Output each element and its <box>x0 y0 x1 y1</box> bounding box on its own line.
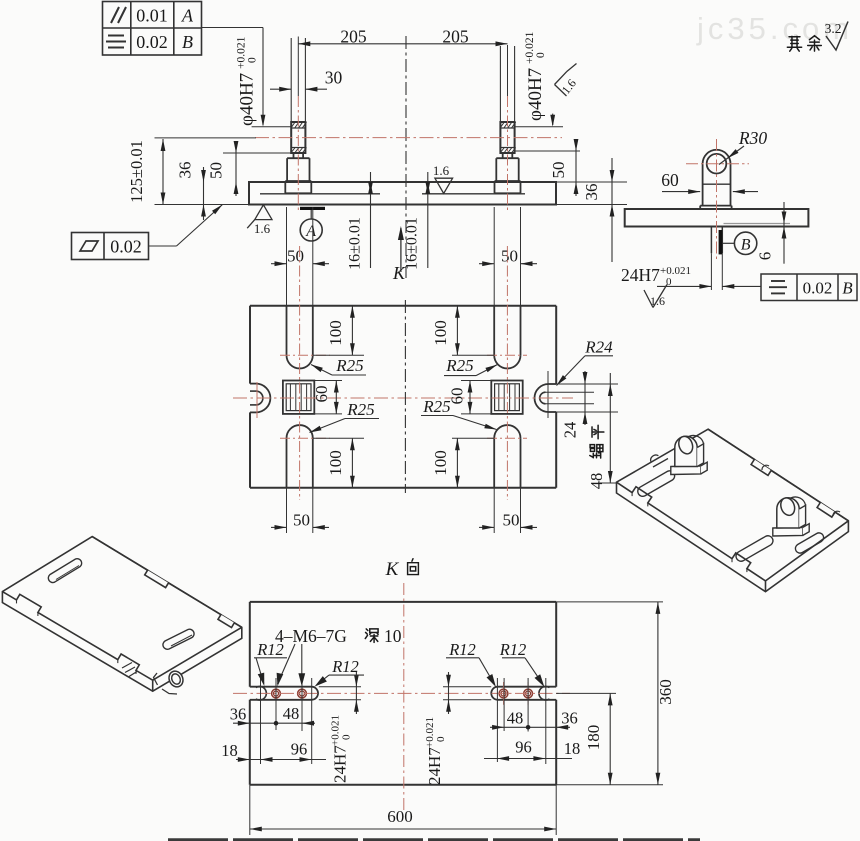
svg-text:0.02: 0.02 <box>803 279 833 298</box>
svg-text:0.02: 0.02 <box>110 237 142 257</box>
svg-text:96: 96 <box>291 740 308 759</box>
svg-text:60: 60 <box>312 386 331 403</box>
svg-text:1.6: 1.6 <box>433 163 450 178</box>
svg-text:A: A <box>181 6 194 26</box>
svg-text:R12: R12 <box>448 640 476 659</box>
svg-text:30: 30 <box>325 68 343 88</box>
svg-text:1.6: 1.6 <box>650 294 665 308</box>
svg-text:R25: R25 <box>445 356 473 375</box>
svg-text:100: 100 <box>431 450 450 476</box>
svg-text:R25: R25 <box>335 356 363 375</box>
svg-text:600: 600 <box>387 807 413 826</box>
svg-text:6: 6 <box>756 252 775 261</box>
svg-text:24H7: 24H7 <box>621 265 660 285</box>
svg-text:100: 100 <box>326 320 345 346</box>
svg-text:+0.021: +0.021 <box>524 31 536 64</box>
svg-text:205: 205 <box>340 26 367 46</box>
svg-text:36: 36 <box>582 184 601 201</box>
svg-text:48: 48 <box>507 709 524 728</box>
svg-text:60: 60 <box>661 170 679 190</box>
svg-text:0.02: 0.02 <box>136 32 168 52</box>
svg-text:18: 18 <box>221 741 238 760</box>
svg-text:+0.021: +0.021 <box>330 715 342 746</box>
svg-text:K: K <box>385 559 400 580</box>
svg-text:24H7: 24H7 <box>331 745 350 783</box>
svg-text:K: K <box>392 263 406 283</box>
svg-text:3.2: 3.2 <box>825 21 842 36</box>
svg-text:B: B <box>182 32 193 52</box>
svg-text:18: 18 <box>564 739 581 758</box>
svg-text:50: 50 <box>287 247 304 266</box>
svg-text:205: 205 <box>442 26 469 46</box>
svg-text:R30: R30 <box>738 128 767 148</box>
svg-text:48: 48 <box>283 704 300 723</box>
svg-text:+0.021: +0.021 <box>660 265 691 277</box>
svg-text:50: 50 <box>549 162 568 179</box>
svg-text:100: 100 <box>326 450 345 476</box>
svg-text:10: 10 <box>384 626 402 646</box>
svg-text:50: 50 <box>293 511 310 530</box>
svg-text:B: B <box>842 279 853 298</box>
svg-text:φ40H7: φ40H7 <box>237 73 258 126</box>
svg-text:24: 24 <box>561 422 580 439</box>
svg-text:B: B <box>741 236 751 253</box>
svg-text:φ40H7: φ40H7 <box>525 68 546 121</box>
svg-text:R25: R25 <box>422 397 450 416</box>
svg-text:96: 96 <box>515 738 532 757</box>
svg-text:16±0.01: 16±0.01 <box>347 217 364 270</box>
svg-text:A: A <box>305 223 316 240</box>
svg-text:1.6: 1.6 <box>254 221 271 236</box>
svg-text:125±0.01: 125±0.01 <box>127 140 146 203</box>
svg-text:360: 360 <box>656 679 675 705</box>
svg-text:180: 180 <box>584 725 603 751</box>
svg-text:0: 0 <box>535 52 547 58</box>
svg-text:0: 0 <box>247 57 259 63</box>
svg-text:24H7: 24H7 <box>425 747 444 785</box>
svg-text:50: 50 <box>503 511 520 530</box>
svg-text:48: 48 <box>587 473 606 490</box>
svg-text:+0.021: +0.021 <box>424 717 436 748</box>
svg-text:60: 60 <box>448 388 467 405</box>
svg-text:R25: R25 <box>346 400 374 419</box>
svg-text:R12: R12 <box>256 640 284 659</box>
svg-text:16±0.01: 16±0.01 <box>404 217 421 270</box>
svg-text:50: 50 <box>207 162 226 179</box>
svg-text:0.01: 0.01 <box>136 6 168 26</box>
svg-text:0: 0 <box>341 734 353 740</box>
svg-text:0: 0 <box>435 736 447 742</box>
svg-text:R12: R12 <box>331 657 359 676</box>
svg-text:R12: R12 <box>499 640 527 659</box>
svg-text:4–M6–7G: 4–M6–7G <box>275 626 347 646</box>
svg-text:R24: R24 <box>584 338 613 357</box>
svg-text:50: 50 <box>501 247 518 266</box>
svg-text:+0.021: +0.021 <box>236 36 248 69</box>
svg-text:36: 36 <box>561 709 578 728</box>
svg-text:36: 36 <box>176 162 195 179</box>
svg-text:36: 36 <box>230 705 247 724</box>
svg-text:100: 100 <box>431 320 450 346</box>
